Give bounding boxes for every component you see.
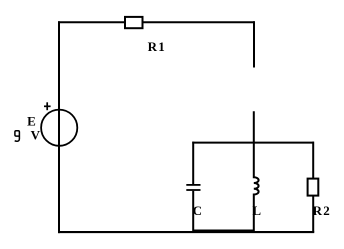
svg-text:R2: R2 <box>313 203 332 218</box>
svg-text:C: C <box>193 203 202 218</box>
svg-text:V: V <box>31 127 41 142</box>
svg-text:E: E <box>27 113 36 128</box>
svg-text:R1: R1 <box>148 39 167 54</box>
svg-text:L: L <box>252 203 261 218</box>
